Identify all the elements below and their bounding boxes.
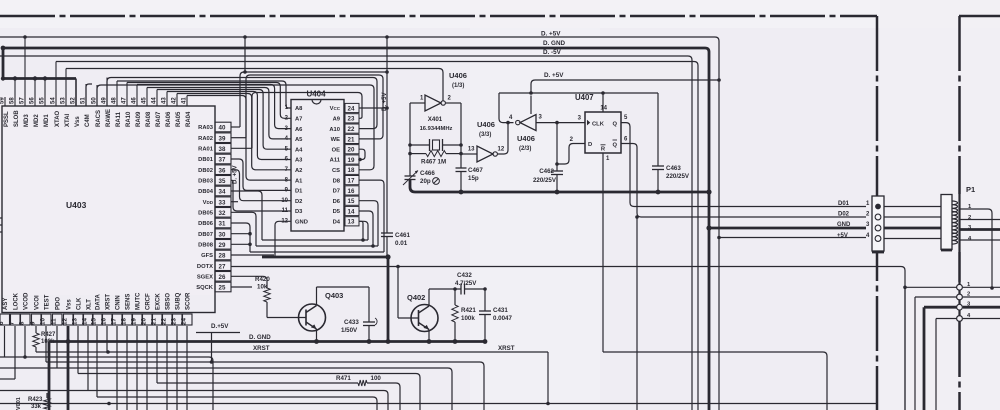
svg-text:1/50V: 1/50V xyxy=(341,327,358,334)
wire U406-3 output xyxy=(498,121,510,154)
wire ring A10 y78 xyxy=(107,78,377,129)
svg-text:A10: A10 xyxy=(329,127,340,133)
svg-text:17: 17 xyxy=(111,318,118,325)
svg-text:45: 45 xyxy=(142,97,148,104)
svg-text:DB06: DB06 xyxy=(198,221,214,227)
svg-text:D. -5V: D. -5V xyxy=(543,49,562,56)
svg-text:U403: U403 xyxy=(66,200,87,210)
svg-text:C463: C463 xyxy=(666,165,681,172)
wire +5V into inverter xyxy=(530,96,532,115)
transistor Q402 xyxy=(398,267,438,342)
ground rail D.GND bottom (thick) xyxy=(49,339,487,410)
connector pin 3 GND xyxy=(837,222,881,231)
svg-text:OE: OE xyxy=(332,147,341,153)
net D.+5V osc branch xyxy=(529,80,719,95)
resistor R471 xyxy=(358,380,367,386)
svg-text:A1: A1 xyxy=(295,178,303,184)
wire ring CS y85 xyxy=(97,85,374,170)
svg-text:WE: WE xyxy=(331,137,340,143)
svg-text:14: 14 xyxy=(82,318,89,325)
resistor R467 xyxy=(410,151,461,157)
wire D5 riser xyxy=(359,221,368,240)
wire DB06 xyxy=(231,223,250,252)
label R420 xyxy=(255,276,270,291)
wire C431 riser xyxy=(484,289,486,311)
svg-text:TEST: TEST xyxy=(45,294,51,310)
wire U406-1 output xyxy=(446,96,462,104)
wire DB02 xyxy=(231,170,291,201)
svg-text:100k: 100k xyxy=(461,315,475,322)
svg-text:56: 56 xyxy=(30,97,36,104)
svg-text:A8: A8 xyxy=(295,106,303,112)
wire D4 riser xyxy=(359,221,363,240)
svg-text:A6: A6 xyxy=(295,127,303,133)
label U407 xyxy=(575,93,594,102)
label U406 (2/3) xyxy=(517,134,535,152)
label D.GND xyxy=(543,40,565,47)
wire lower conn right 3 xyxy=(963,306,1000,309)
svg-text:D1: D1 xyxy=(295,189,303,195)
wire D6 riser xyxy=(359,211,373,246)
label D.+5V vertical near U404 right xyxy=(382,92,388,111)
svg-text:SCOR: SCOR xyxy=(186,292,192,310)
wire ring A9 y92.5 xyxy=(252,93,362,149)
svg-text:18: 18 xyxy=(348,167,355,174)
svg-text:D. GND: D. GND xyxy=(249,334,271,341)
svg-text:26: 26 xyxy=(219,274,226,281)
wire C4M xyxy=(86,84,92,106)
svg-text:RA08: RA08 xyxy=(146,111,152,127)
wire Q403 collector to C433 xyxy=(317,287,370,322)
wire under U404 row2 xyxy=(256,244,378,248)
U403 right pin boxes and labels xyxy=(196,122,231,292)
wire osc right node xyxy=(459,103,463,168)
svg-text:23: 23 xyxy=(348,116,355,123)
svg-text:100k: 100k xyxy=(41,339,55,345)
svg-text:A9: A9 xyxy=(333,117,341,123)
svg-text:54: 54 xyxy=(51,97,57,104)
svg-text:58: 58 xyxy=(10,97,16,104)
osc GND rail thick xyxy=(410,180,709,195)
svg-text:47: 47 xyxy=(122,97,128,104)
svg-text:SBSO: SBSO xyxy=(166,293,172,310)
capacitor C462 xyxy=(551,171,563,192)
U404 left pin labels xyxy=(281,105,308,225)
svg-text:22: 22 xyxy=(161,318,168,325)
connector bottom caps xyxy=(872,250,952,252)
svg-text:4.7/25V: 4.7/25V xyxy=(455,280,477,287)
svg-text:R427: R427 xyxy=(41,332,56,338)
wire lower conn right 2 xyxy=(963,296,1000,298)
svg-text:16.9344MHz: 16.9344MHz xyxy=(420,126,453,132)
wire ring Vcc y72 xyxy=(240,37,389,233)
svg-text:RA01: RA01 xyxy=(198,147,214,153)
svg-text:17: 17 xyxy=(348,178,355,185)
wire filter out 3 xyxy=(960,228,1000,231)
label U404 xyxy=(306,90,326,99)
wire Q402 collector rail xyxy=(429,287,461,291)
wire RA03 stub xyxy=(231,126,240,128)
wire GND bus to pins 58/56/55/52 xyxy=(1,48,76,106)
wire bottom row y403 xyxy=(0,402,877,406)
svg-text:19: 19 xyxy=(348,157,355,164)
wire U406-2 output pin3 xyxy=(536,115,585,125)
svg-text:(1/3): (1/3) xyxy=(452,83,464,89)
svg-text:21: 21 xyxy=(348,136,355,143)
U407 pin Q xyxy=(612,115,628,127)
wire thick GND segment y257 xyxy=(262,254,391,341)
lower connector pins xyxy=(905,282,971,410)
label C431 xyxy=(493,307,512,322)
board boundary 2 top-left corner xyxy=(959,15,1000,18)
svg-text:13: 13 xyxy=(348,219,355,226)
svg-text:15p: 15p xyxy=(468,175,479,182)
label R471 xyxy=(336,375,381,382)
board boundary 2 vertical xyxy=(958,16,961,410)
label X401 frequency xyxy=(420,126,453,132)
svg-text:13: 13 xyxy=(468,147,475,153)
svg-text:6: 6 xyxy=(0,321,5,325)
label XRST left xyxy=(253,345,270,352)
svg-text:SQCK: SQCK xyxy=(196,285,214,291)
wire GFS stub xyxy=(231,254,274,256)
label C462 xyxy=(533,168,557,184)
svg-text:41: 41 xyxy=(182,97,188,104)
wire RA01 stub xyxy=(231,147,252,149)
wire bottom row y362 xyxy=(46,360,484,410)
svg-text:29: 29 xyxy=(219,242,226,249)
svg-text:DB03: DB03 xyxy=(198,179,214,185)
svg-text:DB01: DB01 xyxy=(198,157,214,163)
svg-text:DATA: DATA xyxy=(96,294,102,310)
svg-text:14: 14 xyxy=(348,208,355,215)
capacitor C431 xyxy=(479,311,491,342)
capacitor C461 xyxy=(381,233,393,257)
svg-text:C462: C462 xyxy=(539,168,554,175)
svg-text:13: 13 xyxy=(72,318,79,325)
svg-text:220/25V: 220/25V xyxy=(533,177,557,184)
svg-text:GFS: GFS xyxy=(201,253,213,259)
label D.+5V mid-left xyxy=(196,323,240,362)
wire conn to filter 4 xyxy=(884,238,941,240)
svg-text:9: 9 xyxy=(30,321,37,325)
svg-text:DB05: DB05 xyxy=(198,211,214,217)
svg-text:R420: R420 xyxy=(255,276,270,283)
wire U406-1 input xyxy=(410,96,425,104)
label D.+5V vertical near U404 left xyxy=(233,165,239,184)
svg-text:37: 37 xyxy=(219,157,226,164)
label U406 (1/3) xyxy=(449,71,467,89)
label R421 xyxy=(461,307,476,322)
svg-text:Vss: Vss xyxy=(75,116,81,127)
svg-text:D01: D01 xyxy=(838,201,850,207)
label Q402 xyxy=(407,293,425,302)
wire U407 pin1 XRST return xyxy=(603,352,827,410)
svg-text:10: 10 xyxy=(40,318,47,325)
svg-text:A7: A7 xyxy=(295,117,302,123)
wire U404 pin12 GND xyxy=(275,221,291,257)
svg-text:D7: D7 xyxy=(333,189,340,195)
resistor R427 xyxy=(33,326,39,352)
wire SQCK stub xyxy=(231,286,252,288)
label U406 (3/3) xyxy=(477,120,495,138)
svg-text:35: 35 xyxy=(219,178,226,185)
U407 pin R xyxy=(601,145,606,153)
connector pin 2 D02 xyxy=(838,212,881,220)
label XRST right xyxy=(498,345,515,352)
svg-text:20: 20 xyxy=(348,147,355,154)
svg-text:DB04: DB04 xyxy=(198,189,214,195)
wire lower conn right 1 xyxy=(963,286,1000,289)
wire DB01 xyxy=(231,159,291,190)
svg-text:DOTX: DOTX xyxy=(197,264,213,270)
svg-text:ASY: ASY xyxy=(3,298,9,310)
label C461 xyxy=(395,232,411,247)
svg-text:R421: R421 xyxy=(461,307,476,314)
wire bottom row y397 xyxy=(97,397,377,410)
svg-text:X401: X401 xyxy=(428,116,443,123)
svg-text:8: 8 xyxy=(19,321,26,325)
svg-text:MD3: MD3 xyxy=(24,114,30,127)
svg-text:C466: C466 xyxy=(420,170,435,177)
U403 top pin numbers and names xyxy=(0,97,192,127)
svg-text:C461: C461 xyxy=(395,232,411,239)
wire C463 riser xyxy=(657,93,659,166)
svg-text:22: 22 xyxy=(348,126,355,133)
svg-text:57: 57 xyxy=(20,97,26,104)
svg-text:15: 15 xyxy=(348,198,355,205)
wire D7 riser xyxy=(359,201,378,246)
wire XRST net xyxy=(36,350,550,405)
wire D8 riser xyxy=(359,180,384,252)
svg-text:D5: D5 xyxy=(333,209,341,215)
svg-text:RA07: RA07 xyxy=(156,111,162,127)
svg-text:CS: CS xyxy=(332,168,340,174)
svg-text:7: 7 xyxy=(9,321,16,325)
svg-text:Vss: Vss xyxy=(67,299,73,310)
svg-text:20p: 20p xyxy=(420,178,431,185)
wire under U404 row1 xyxy=(262,238,368,242)
svg-text:46: 46 xyxy=(132,97,138,104)
label C463 xyxy=(666,165,690,180)
svg-text:D8: D8 xyxy=(333,178,341,184)
wire +5V vertical x245 xyxy=(244,37,246,72)
svg-text:21: 21 xyxy=(151,318,158,325)
wire R420 net xyxy=(231,276,267,288)
svg-text:RA10: RA10 xyxy=(126,111,132,127)
U403 bottom pin names and numbers xyxy=(0,292,192,325)
svg-text:D.+5V: D.+5V xyxy=(211,323,229,330)
wire OE-A11 hook xyxy=(358,149,365,161)
svg-text:53: 53 xyxy=(61,97,67,104)
svg-text:XRST: XRST xyxy=(498,345,515,352)
label C432 xyxy=(455,272,477,287)
svg-text:RA04: RA04 xyxy=(186,111,192,127)
svg-text:Q: Q xyxy=(612,121,617,127)
wire U407 Qbar to D02 xyxy=(621,144,866,410)
wire pin4 riser +5V xyxy=(499,93,514,123)
svg-text:C432: C432 xyxy=(457,272,472,279)
svg-text:14: 14 xyxy=(600,106,607,112)
svg-text:Q403: Q403 xyxy=(325,291,343,300)
svg-text:34: 34 xyxy=(219,189,226,196)
svg-text:48: 48 xyxy=(112,97,118,104)
svg-text:XTAI: XTAI xyxy=(65,113,71,127)
svg-text:40: 40 xyxy=(219,125,226,132)
svg-text:RA02: RA02 xyxy=(198,136,213,142)
svg-text:RA11: RA11 xyxy=(116,111,122,127)
filter block core xyxy=(941,195,952,250)
svg-text:GND: GND xyxy=(837,222,851,228)
wire bottom row R471 line xyxy=(157,383,400,410)
svg-text:11: 11 xyxy=(51,318,58,325)
op-amp U406 inverter 2/3 (points left) xyxy=(516,115,536,131)
svg-text:CLK: CLK xyxy=(592,121,605,127)
svg-text:A11: A11 xyxy=(330,158,341,164)
svg-text:39: 39 xyxy=(219,135,226,142)
svg-text:XTAO: XTAO xyxy=(55,110,61,127)
svg-text:36: 36 xyxy=(219,167,226,174)
label V001 vertical xyxy=(16,397,22,410)
svg-text:25: 25 xyxy=(219,285,226,292)
svg-text:19: 19 xyxy=(131,318,138,325)
wire RA11-RA04 bus to U404 xyxy=(117,81,291,180)
svg-text:XRST: XRST xyxy=(253,345,270,352)
svg-text:100: 100 xyxy=(371,375,382,382)
svg-text:U406: U406 xyxy=(517,134,535,143)
svg-text:C431: C431 xyxy=(493,307,508,314)
svg-text:24: 24 xyxy=(181,318,188,325)
board boundary dash-dot top xyxy=(0,15,877,18)
wire bottom row y357 xyxy=(0,355,213,410)
svg-text:43: 43 xyxy=(162,97,168,104)
label P1 xyxy=(966,185,975,194)
label C433 xyxy=(341,319,359,334)
wire bottom row y368 xyxy=(0,368,452,410)
svg-text:D2: D2 xyxy=(295,199,302,205)
svg-text:44: 44 xyxy=(152,97,158,104)
svg-text:12: 12 xyxy=(62,318,69,325)
IC U403 body xyxy=(2,106,215,313)
label U403 xyxy=(66,200,87,210)
svg-text:55: 55 xyxy=(40,97,46,104)
svg-text:(2/3): (2/3) xyxy=(519,146,531,152)
svg-text:D02: D02 xyxy=(838,212,850,218)
svg-text:23: 23 xyxy=(171,318,178,325)
wire RA02 stub xyxy=(231,137,246,139)
svg-text:16: 16 xyxy=(348,188,355,195)
U407 pin CLK xyxy=(578,116,605,128)
wire osc left node xyxy=(408,103,412,176)
wire signal y267 xyxy=(231,265,907,410)
label R423 xyxy=(28,397,43,410)
label D.GND bottom xyxy=(249,334,271,341)
U403 bottom pin drop wires and thick Vss xyxy=(5,326,188,410)
svg-text:33: 33 xyxy=(219,199,226,206)
svg-text:PDO: PDO xyxy=(56,297,62,310)
filter coils xyxy=(952,201,958,244)
svg-text:SLOB: SLOB xyxy=(14,110,20,127)
svg-text:A4: A4 xyxy=(295,147,303,153)
svg-text:LOCK: LOCK xyxy=(14,292,20,310)
transistor Q403 xyxy=(267,287,326,342)
net D.-5V rail xyxy=(0,56,692,410)
capacitor C433 xyxy=(363,318,377,342)
svg-text:0.01: 0.01 xyxy=(395,240,408,247)
wire DB04 xyxy=(231,191,262,240)
svg-text:0.0047: 0.0047 xyxy=(493,315,512,322)
label X401 xyxy=(428,116,443,123)
svg-text:32: 32 xyxy=(219,210,226,217)
svg-text:SUBQ: SUBQ xyxy=(176,292,182,310)
svg-text:U406: U406 xyxy=(449,71,467,80)
svg-text:38: 38 xyxy=(219,146,226,153)
U407 pin D xyxy=(570,137,593,148)
svg-text:+5V: +5V xyxy=(837,233,848,239)
svg-text:24: 24 xyxy=(348,105,355,112)
U403 left pin stubs xyxy=(0,218,2,232)
svg-text:XLT: XLT xyxy=(87,299,93,310)
svg-text:42: 42 xyxy=(172,97,178,104)
svg-text:D. +5V: D. +5V xyxy=(544,72,564,79)
label pin4 xyxy=(509,115,513,121)
svg-text:30: 30 xyxy=(219,231,226,238)
wire under U404 row3 xyxy=(250,251,384,253)
resistor R420 xyxy=(264,288,270,318)
wire U406-3 input xyxy=(461,147,477,155)
svg-text:18: 18 xyxy=(121,318,128,325)
svg-text:12: 12 xyxy=(498,147,505,153)
svg-text:V001: V001 xyxy=(16,397,22,410)
capacitor C432 xyxy=(461,284,487,295)
svg-text:D6: D6 xyxy=(333,199,341,205)
connector header box xyxy=(872,196,884,251)
svg-text:28: 28 xyxy=(219,253,226,260)
op-amp U406 inverter 3/3 xyxy=(477,146,497,162)
svg-text:R423: R423 xyxy=(28,397,43,403)
svg-text:DB08: DB08 xyxy=(198,243,214,249)
net D.GND top rail (thick) xyxy=(1,46,866,410)
svg-text:XRST: XRST xyxy=(106,294,112,310)
svg-text:DB07: DB07 xyxy=(198,232,213,238)
filter pin numbers xyxy=(968,204,972,242)
svg-text:220/25V: 220/25V xyxy=(666,173,690,180)
svg-text:D. +5V: D. +5V xyxy=(541,31,561,38)
wire U407 D loop xyxy=(557,144,585,165)
svg-text:2: 2 xyxy=(968,215,971,221)
svg-text:D. GND: D. GND xyxy=(543,40,565,47)
board boundary dash-dot right vertical xyxy=(876,16,879,410)
U407 pin Qbar xyxy=(612,137,628,149)
svg-text:U407: U407 xyxy=(575,93,594,102)
svg-text:R471: R471 xyxy=(336,375,351,382)
svg-text:27: 27 xyxy=(219,263,226,270)
wire DB05 xyxy=(231,212,256,246)
label D.-5V xyxy=(543,49,562,56)
wire conn to filter 2 xyxy=(884,216,941,218)
crystal X401 xyxy=(410,139,461,151)
connector pin 4 +5V xyxy=(837,233,881,241)
svg-text:P1: P1 xyxy=(966,185,975,194)
svg-text:16: 16 xyxy=(101,318,108,325)
svg-text:MD1: MD1 xyxy=(44,114,50,127)
svg-text:C467: C467 xyxy=(468,167,483,174)
wire Vdd stub xyxy=(231,201,238,203)
wire lower conn right 4 xyxy=(963,318,1000,320)
svg-text:(3/3): (3/3) xyxy=(479,132,491,138)
svg-text:U404: U404 xyxy=(306,90,326,99)
svg-text:MD2: MD2 xyxy=(34,114,40,127)
